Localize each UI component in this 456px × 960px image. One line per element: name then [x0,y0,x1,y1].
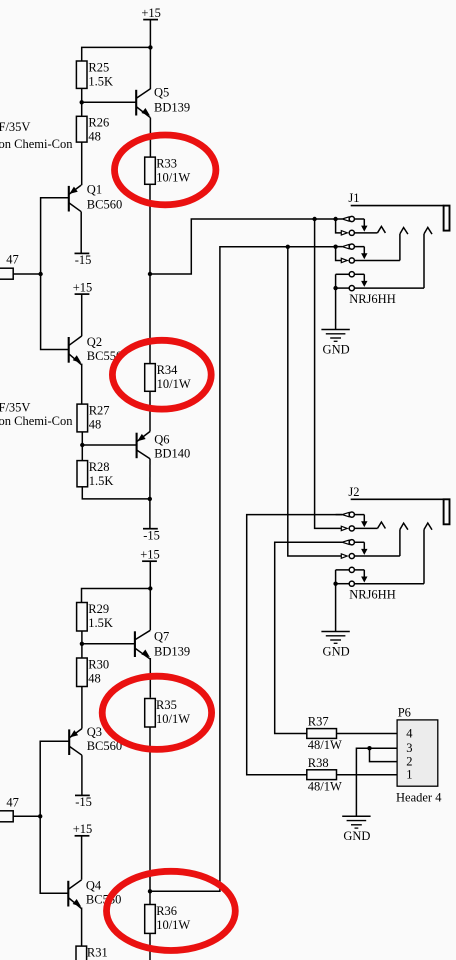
wire node A3 to R28 [81,445,83,461]
power +15 (ch1 top) [141,6,161,20]
svg-text:48: 48 [88,130,101,144]
svg-text:48: 48 [89,417,102,431]
svg-text:4: 4 [406,726,413,740]
svg-text:NRJ6HH: NRJ6HH [349,588,396,602]
wire +15 to node A1 [149,20,151,48]
node A4 [148,497,152,501]
wire +15 to Q2 collector [81,294,83,336]
svg-text:BD139: BD139 [154,644,190,658]
svg-text:P6: P6 [398,705,411,719]
svg-text:Q3: Q3 [87,725,102,739]
wire 47 to node B1 [13,273,40,275]
wire R28 to node A4 [82,487,150,499]
svg-text:47: 47 [6,253,19,267]
svg-text:GND: GND [343,829,370,843]
svg-text:BC560: BC560 [87,198,122,212]
wire 47 to node B2 [13,815,40,817]
resistor R33 (10/1W) [145,157,191,185]
resistor R25 (1.5K) [76,60,113,88]
wire node C2 to J1 pin 3 [288,246,336,248]
J1 wire pin 5 to pin 6 node [336,274,350,288]
wire Q5 emitter to R33 [149,118,151,157]
ground GND (P6) [342,816,370,843]
svg-text:Header 4: Header 4 [396,790,442,804]
transistor Q2 (BC550) [69,335,123,365]
J2 pin 2 contact [341,526,354,531]
svg-text:R28: R28 [89,460,110,474]
wire R37 to P6 pin 4 [337,733,398,735]
transistor Q5 (BD139) [136,86,190,118]
wire node OUT1 to node C1 [150,219,315,274]
resistor R30 (48) [77,657,110,686]
transistor Q4 (BC550) [68,879,121,909]
ground GND (J1) [321,330,349,357]
wire node A2 to Q5 base [82,101,137,103]
wire node A3 to Q6 base [82,444,136,446]
svg-text:R34: R34 [157,363,179,377]
wire R35 to node OUT2 [149,727,151,891]
power -15 (ch2 upper) [75,795,92,809]
svg-text:R37: R37 [308,714,329,728]
wire Q3 collector to -15 [81,755,83,795]
J2 value label [349,588,396,602]
node A2 [80,100,84,104]
resistor R36 (10/1W) [145,904,191,934]
node D1 [367,746,371,750]
svg-text:10/1W: 10/1W [157,377,191,391]
highlight ellipse around R34 [112,340,211,409]
resistor 47 (ch2) [0,796,19,822]
J2 pin 3-4 switch arrow [354,542,367,555]
svg-text:R29: R29 [88,602,109,616]
wire node OUT2 to node C2 [150,247,288,892]
wire J2 pin 3 to R37 [275,542,343,733]
wire node B2 to Q4 base [40,816,68,893]
wire node B1 to Q2 base [41,274,69,350]
connector J1: label [348,191,359,205]
wire Q6 collector to node A4 [149,459,151,499]
J1 pin 6 tip lever [354,227,432,288]
node A3 [80,443,84,447]
J1 pin 3-4 switch arrow [354,247,367,260]
svg-text:BD140: BD140 [154,447,190,461]
wire R25 to node A2 [81,88,83,102]
wire node OUT2 to R36 [149,891,151,904]
wire Q1 collector to -15 [80,212,82,254]
node A1 [148,45,152,49]
wire node C1 to J2 pin 2 [315,219,342,528]
resistor R28 (1.5K) [77,460,113,488]
svg-text:on Chemi-Con: on Chemi-Con [0,414,73,428]
J1 pin 1-2 switch arrow [354,219,367,232]
highlight ellipse around R33 [115,135,216,205]
node J1 pin 3 [333,244,337,248]
svg-text:Q2: Q2 [87,335,102,349]
wire node C2 to J2 pin 4 [288,247,342,556]
svg-text:R35: R35 [156,698,177,712]
J1 pin 6 contact [336,286,355,291]
wire J1 pin 3 to pin 4 [336,247,342,261]
connector J2: body top line [351,498,444,500]
transistor Q7 (BD139) [135,630,190,660]
node C1 [312,217,316,221]
wire node A6 to R30 [81,644,83,658]
transistor Q1 (BC560) [69,183,122,212]
wire Q4 emitter to R31 [81,908,83,947]
wire +15 to Q4 collector [81,836,83,880]
J1 pin 4 ring lever [354,228,408,261]
resistor R31 [76,946,108,960]
svg-text:48/1W: 48/1W [308,780,342,794]
resistor R34 (10/1W) [145,363,191,391]
power -15 (ch1 upper) [75,253,92,267]
wire Q2 emitter to R27 [81,364,83,405]
resistor 47 (ch1) [0,253,19,280]
wire Q7 emitter to R35 [149,658,151,698]
J2 pin 1-2 switch arrow [354,515,367,528]
svg-text:48/1W: 48/1W [308,738,342,752]
node OUT1 [148,272,152,276]
J2 pin 3 contact [336,540,355,545]
J2 pin 6 node [333,582,337,586]
svg-text:Q1: Q1 [87,183,102,197]
wire P6 pin 3 to GND [356,748,397,816]
wire node A5 to R29 [82,589,151,603]
caption F/35V (ch2) [0,401,30,415]
J1 pin 2 sleeve lever [354,226,385,233]
node C2 [286,245,290,249]
svg-text:Q7: Q7 [154,630,169,644]
wire J2 pin 6 to GND [335,584,337,632]
svg-text:+15: +15 [73,822,93,836]
wire +15 to node A5 [149,561,151,588]
svg-text:+15: +15 [73,280,93,294]
svg-text:R25: R25 [88,60,109,74]
resistor R27 (48) [77,404,110,432]
wire J2 pin 1 to R38 [247,515,343,775]
wire Q3 base to node B2 [40,741,69,816]
connector J2: label [348,485,359,499]
J2 pin 5-6 switch arrow [354,570,367,583]
svg-text:1: 1 [406,768,412,782]
ground GND (J2) [321,632,349,659]
svg-text:10/1W: 10/1W [156,170,190,184]
highlight ellipse around R36 [106,871,235,950]
resistor R38 (48/1W) [307,756,342,794]
svg-text:R30: R30 [88,657,109,671]
svg-text:1.5K: 1.5K [88,74,113,88]
caption F/35V (ch1) [0,120,30,134]
node B1 [38,272,42,276]
wire J1 pin 6 to GND [335,288,337,329]
svg-text:48: 48 [88,671,101,685]
J1 pin 2 contact [341,230,354,235]
J2 pin 4 contact [341,553,354,558]
svg-text:+15: +15 [141,6,161,20]
svg-text:NRJ6HH: NRJ6HH [349,292,396,306]
node J1 pin 1 [333,217,337,221]
svg-text:1.5K: 1.5K [89,474,114,488]
power +15 (ch1 mid) [73,280,93,294]
node A5 [148,586,152,590]
svg-text:Q6: Q6 [154,433,169,447]
J2 pin 1 contact [336,512,355,517]
wire Q5 collector to node A1 [149,47,151,89]
wire node C1 to J1 pin 1 [315,218,336,220]
J1 pin 6 node [333,286,337,290]
wire R33 to node OUT1 [149,184,151,274]
svg-text:-15: -15 [75,795,92,809]
node B2 [38,814,42,818]
svg-text:GND: GND [323,342,350,356]
connector J1: body top line [351,205,444,207]
wire node OUT1 to R34 [149,274,151,364]
svg-text:F/35V: F/35V [0,401,30,415]
wire R34 to Q6 emitter [149,391,151,431]
J1 value label [349,292,396,306]
wire node A2 to R26 [81,102,83,116]
wire node A6 to Q7 base [82,643,135,645]
svg-text:2: 2 [406,754,412,768]
svg-text:R33: R33 [156,157,177,171]
wire node A1 to R25 [82,47,151,61]
svg-text:on Chemi-Con: on Chemi-Con [0,137,73,151]
connector J1: sleeve rect [444,206,450,231]
wire R36 to page edge [149,933,151,960]
wire R26 to Q1 emitter [81,142,83,185]
power +15 (ch2 lower) [73,822,93,836]
J2 pin 5 contact [349,567,354,572]
wire R27 to node A3 [81,432,83,445]
wire R38 to P6 pin 1 [337,774,398,776]
node A6 [80,642,84,646]
svg-text:R31: R31 [87,946,108,960]
svg-text:3: 3 [406,741,412,755]
wire R30 to Q3 emitter [81,687,83,729]
J2 wire pin 5 to pin 6 node [336,570,350,584]
J2 pin 2 sleeve lever [354,522,385,529]
power -15 (ch1 lower) [143,528,160,542]
resistor R37 (48/1W) [307,714,342,752]
svg-text:10/1W: 10/1W [156,712,190,726]
wire node A4 to -15 [149,499,151,529]
svg-text:J1: J1 [348,191,359,205]
resistor R26 (48) [76,116,109,144]
J1 pin 4 contact [341,258,354,263]
svg-text:F/35V: F/35V [0,120,30,134]
resistor R29 (1.5K) [77,602,113,631]
svg-text:+15: +15 [140,547,160,561]
svg-text:Q4: Q4 [86,879,102,893]
svg-text:R36: R36 [156,904,177,918]
resistor R35 (10/1W) [145,698,191,727]
J2 pin 6 tip lever [354,523,432,584]
svg-text:10/1W: 10/1W [156,918,190,932]
svg-text:BD139: BD139 [154,101,190,115]
transistor Q6 (BD140) [137,432,191,461]
svg-text:GND: GND [323,644,350,658]
transistor Q3 (BC560) [69,725,122,755]
J1 pin 5-6 switch arrow [354,274,367,287]
wire P6 pin 2 to node D1 [370,748,398,761]
wire J1 pin 1 to pin 2 [336,219,342,233]
node OUT2 [148,889,152,893]
power +15 (ch2 top) [140,547,160,561]
J1 pin 1 contact [336,216,355,221]
J1 pin 3 contact [336,244,355,249]
svg-text:-15: -15 [75,253,92,267]
highlight ellipse around R35 [102,676,211,749]
svg-text:R26: R26 [88,116,109,130]
wire R29 to node A6 [81,631,83,644]
svg-text:-15: -15 [143,528,160,542]
J1 pin 5 contact [349,272,354,277]
caption on Chemi-Con (ch2) [0,414,73,428]
caption on Chemi-Con (ch1) [0,137,73,151]
J2 pin 6 contact [336,581,355,586]
wire Q7 collector to node A5 [149,589,151,631]
svg-text:1.5K: 1.5K [88,616,113,630]
svg-text:47: 47 [6,796,19,810]
connector J2: sleeve rect [444,499,450,524]
svg-text:J2: J2 [348,485,359,499]
J2 pin 4 ring lever [354,523,408,556]
header P6 (Header 4) [396,705,442,804]
svg-text:R38: R38 [308,756,329,770]
svg-text:R27: R27 [89,404,110,418]
wire Q1 base to node B1 [41,198,69,274]
svg-text:Q5: Q5 [154,86,169,100]
